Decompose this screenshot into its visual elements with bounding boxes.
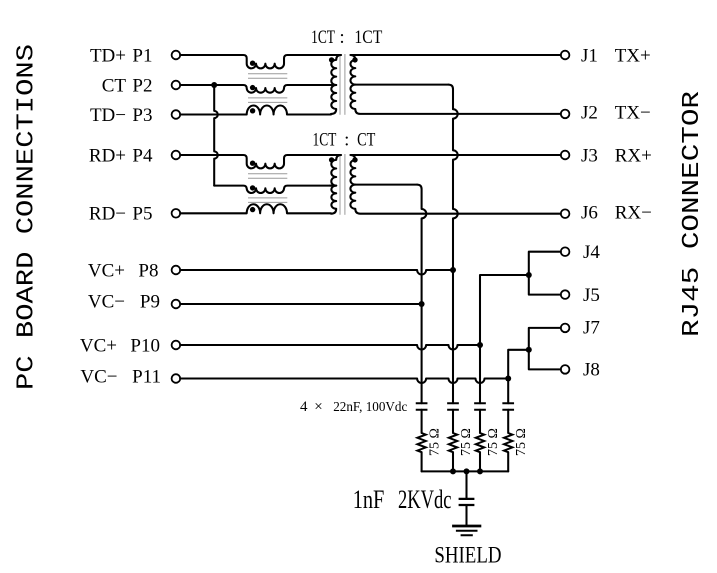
junction bus / R2 bbox=[450, 468, 456, 474]
choke L2 winding 1 (RD+ P4) bbox=[180, 155, 331, 168]
capacitor C5 1nF 2KVdc bbox=[459, 499, 475, 505]
wire R3 to ground bus bbox=[479, 452, 481, 471]
svg-text:RX−: RX− bbox=[615, 203, 652, 224]
svg-text:1CT: 1CT bbox=[313, 130, 337, 151]
svg-text:VC+: VC+ bbox=[88, 260, 125, 281]
svg-text:1nF: 1nF bbox=[353, 485, 385, 514]
junction P9 / T2 tap branch bbox=[419, 301, 425, 307]
svg-text:P9: P9 bbox=[140, 291, 160, 312]
resistor R3 75 ohm bbox=[476, 433, 484, 452]
svg-text:RD−: RD− bbox=[89, 204, 126, 225]
wire VC- P11 (hops over three branches) bbox=[180, 379, 508, 384]
junction J4/J5 mid node bbox=[526, 272, 532, 278]
wire R2 to ground bus bbox=[452, 452, 454, 471]
svg-text:P11: P11 bbox=[132, 366, 161, 387]
svg-text:J6: J6 bbox=[581, 203, 598, 224]
capacitor C3 22nF bbox=[474, 403, 486, 410]
svg-text:75 Ω: 75 Ω bbox=[514, 428, 529, 456]
svg-text:J3: J3 bbox=[581, 145, 598, 166]
svg-text:J1: J1 bbox=[581, 45, 598, 66]
T1 secondary phase dot bbox=[352, 57, 357, 62]
junction bus / C5 stem bbox=[464, 468, 470, 474]
wire J7/J8 node down to C4 via P11 bbox=[508, 350, 529, 403]
pin P10 terminal circle bbox=[172, 341, 181, 350]
wire C3 to R3 bbox=[479, 410, 481, 433]
wire VC+ P8 to tap node (hops over C1 branch) bbox=[180, 270, 453, 275]
svg-text:J4: J4 bbox=[583, 242, 600, 263]
transformer T1 secondary winding center tap wire bbox=[355, 84, 448, 86]
svg-text:VC−: VC− bbox=[80, 366, 117, 387]
pin J2 terminal circle bbox=[561, 110, 570, 119]
svg-text:75 Ω: 75 Ω bbox=[486, 428, 501, 456]
svg-text::: : bbox=[339, 27, 344, 48]
svg-text:1CT: 1CT bbox=[311, 27, 335, 48]
svg-text:TX−: TX− bbox=[615, 103, 651, 124]
junction P8 / T1 tap branch bbox=[450, 267, 456, 273]
pin J4 terminal circle bbox=[561, 247, 570, 256]
choke L2 winding 1 phase dot bbox=[250, 161, 255, 166]
svg-text:RX+: RX+ bbox=[615, 145, 652, 166]
choke L1 core lines bbox=[248, 73, 287, 75]
wire R4 to ground bus bbox=[507, 452, 509, 471]
svg-text:J7: J7 bbox=[583, 318, 600, 339]
resistor R2 75 ohm bbox=[449, 433, 457, 452]
svg-text:SHIELD: SHIELD bbox=[434, 543, 501, 568]
capacitor C2 22nF bbox=[447, 403, 459, 410]
junction J7/J8 mid node bbox=[526, 347, 532, 353]
pin J6 terminal circle bbox=[561, 209, 570, 218]
pin J7 terminal circle bbox=[561, 324, 570, 333]
pin P11 terminal circle bbox=[172, 374, 181, 383]
svg-text:TX+: TX+ bbox=[615, 45, 651, 66]
resistor R4 75 ohm bbox=[504, 433, 512, 452]
wire VC- P9 to tap node bbox=[180, 303, 421, 305]
wire J4-J5 loop bbox=[529, 252, 561, 295]
transformer T1 primary winding bbox=[331, 55, 341, 114]
junction P10 / J4-J5 branch bbox=[477, 342, 483, 348]
svg-text:4: 4 bbox=[300, 399, 308, 415]
svg-text:VC+: VC+ bbox=[80, 335, 117, 356]
ground symbol (SHIELD) bbox=[452, 525, 481, 528]
pin J3 terminal circle bbox=[561, 151, 570, 160]
svg-text:22nF, 100Vdc: 22nF, 100Vdc bbox=[333, 400, 407, 415]
choke L1 winding 3 (TD- P3) bbox=[180, 105, 331, 114]
svg-text:PC BOARD CONNECTIONS: PC BOARD CONNECTIONS bbox=[14, 44, 41, 390]
wire J4/J5 node down to C3 via P10 bbox=[480, 275, 529, 403]
svg-text:J5: J5 bbox=[583, 285, 600, 306]
pin P3 terminal circle bbox=[172, 110, 181, 119]
svg-text:P1: P1 bbox=[132, 45, 152, 66]
svg-text:VC−: VC− bbox=[88, 291, 125, 312]
pin P9 terminal circle bbox=[172, 300, 181, 309]
pin P8 terminal circle bbox=[172, 266, 181, 275]
choke L1 winding 1 (TD+ P1) bbox=[180, 55, 331, 68]
wire bus to C5 bbox=[465, 471, 467, 499]
svg-text:CT: CT bbox=[102, 75, 127, 96]
pin P2 terminal circle bbox=[172, 81, 181, 90]
transformer T2 primary winding center tap wire bbox=[330, 185, 336, 187]
wire C2 to R2 bbox=[452, 410, 454, 433]
wire R1 to ground bus bbox=[421, 452, 423, 471]
wire T1 secondary center tap down to C2 (hops over J2, J3, J6) bbox=[449, 85, 458, 404]
svg-text:J2: J2 bbox=[581, 103, 598, 124]
wire C5 to shield ground bbox=[465, 505, 467, 526]
pin P4 terminal circle bbox=[172, 151, 181, 160]
T2 secondary phase dot bbox=[352, 157, 357, 162]
choke L2 winding 3 phase dot bbox=[250, 207, 255, 212]
svg-text:P10: P10 bbox=[130, 335, 160, 356]
svg-text:P5: P5 bbox=[132, 204, 152, 225]
T2 primary phase dot bbox=[329, 157, 334, 162]
pin J8 terminal circle bbox=[561, 365, 570, 374]
choke L2 winding 2 phase dot bbox=[250, 185, 255, 190]
junction bus / R3 bbox=[477, 468, 483, 474]
junction P11 / J7-J8 branch bbox=[505, 376, 511, 382]
svg-text:×: × bbox=[314, 399, 322, 415]
capacitor C4 22nF bbox=[502, 403, 514, 410]
ground bus wire bbox=[422, 470, 509, 472]
transformer T2 secondary winding center tap wire bbox=[355, 184, 417, 186]
svg-text:P4: P4 bbox=[132, 145, 153, 166]
pin J1 terminal circle bbox=[561, 51, 570, 60]
pin P1 terminal circle bbox=[172, 51, 181, 60]
transformer T1 secondary winding bbox=[350, 55, 560, 114]
choke L1 winding 3 phase dot bbox=[250, 108, 255, 113]
transformer T1 primary winding center tap wire bbox=[330, 84, 336, 86]
wire CT P2 branch down to L2 winding 2 (hops over P3, P4) bbox=[214, 85, 218, 186]
T1 primary phase dot bbox=[329, 57, 334, 62]
svg-text:RD+: RD+ bbox=[89, 145, 126, 166]
transformer T2 primary winding bbox=[331, 155, 341, 214]
svg-text:TD−: TD− bbox=[90, 105, 126, 126]
transformer T2 secondary winding bbox=[350, 155, 560, 214]
choke L2 winding 3 (RD- P5) bbox=[180, 204, 331, 213]
svg-text:TD+: TD+ bbox=[90, 45, 126, 66]
wire C4 to R4 bbox=[507, 410, 509, 433]
svg-text:2KVdc: 2KVdc bbox=[398, 485, 452, 514]
svg-text:75 Ω: 75 Ω bbox=[428, 428, 443, 456]
choke L1 winding 1 phase dot bbox=[250, 61, 255, 66]
svg-text::: : bbox=[344, 130, 349, 151]
svg-text:P8: P8 bbox=[138, 260, 158, 281]
svg-text:RJ45 CONNECTOR: RJ45 CONNECTOR bbox=[679, 91, 706, 337]
resistor R1 75 ohm bbox=[417, 433, 425, 452]
wire C1 to R1 bbox=[421, 410, 423, 433]
pin J5 terminal circle bbox=[561, 290, 570, 299]
wire T2 secondary center tap down to C1 (hops over J6) bbox=[417, 185, 426, 404]
transformer T1 core lines bbox=[339, 54, 341, 115]
svg-text:P2: P2 bbox=[132, 75, 152, 96]
choke L2 winding 2 (from CT) bbox=[214, 186, 331, 193]
svg-text:P3: P3 bbox=[132, 105, 152, 126]
choke L2 core lines bbox=[248, 173, 287, 175]
choke L1 winding 2 phase dot bbox=[250, 85, 255, 90]
svg-text:1CT: 1CT bbox=[354, 27, 382, 48]
wire VC+ P10 (hops over two branches) bbox=[180, 345, 480, 350]
transformer T2 core lines bbox=[339, 154, 341, 215]
svg-text:CT: CT bbox=[357, 130, 375, 151]
wire J7-J8 loop bbox=[529, 328, 561, 370]
choke L1 winding 2 (CT P2) bbox=[180, 85, 331, 93]
svg-text:J8: J8 bbox=[583, 360, 600, 381]
capacitor C1 22nF bbox=[416, 403, 428, 410]
junction CT P2 branch bbox=[211, 82, 217, 88]
pin P5 terminal circle bbox=[172, 209, 181, 218]
svg-text:75 Ω: 75 Ω bbox=[459, 428, 474, 456]
